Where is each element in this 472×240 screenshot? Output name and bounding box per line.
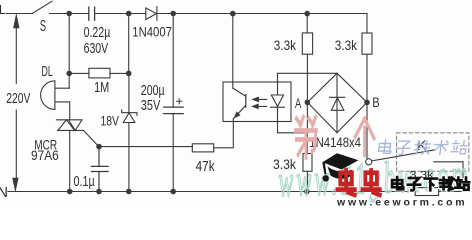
svg-text:L: L [0, 3, 6, 17]
junction node B [364, 100, 370, 106]
terminal arrow L [14, 14, 20, 28]
resistor 1M [89, 68, 110, 78]
svg-text:200µ: 200µ [141, 83, 165, 99]
bridge rectifier 1N4148x4 diamond [307, 73, 367, 133]
wire drop junction1 to lamp wire [68, 14, 70, 74]
watermark red char ge [355, 119, 374, 155]
watermark teal url text [278, 150, 472, 206]
wire top diode to corner B [157, 13, 367, 15]
bridge inner diode [330, 73, 345, 133]
resistor 3.3k R1 [302, 33, 312, 54]
wire 47k to opto emitter [214, 119, 234, 148]
wire zener rail top [128, 14, 130, 74]
opto phototransistor [233, 88, 246, 119]
wire lamp row right [110, 72, 129, 74]
wire N line right [439, 191, 463, 193]
svg-text:18V: 18V [101, 114, 120, 130]
svg-text:N: N [0, 185, 8, 201]
wire triac gate [84, 130, 99, 146]
svg-text:A: A [295, 96, 301, 111]
junction top 3 [170, 11, 176, 17]
svg-text:1N4007: 1N4007 [132, 25, 172, 41]
junction N 4 [170, 189, 176, 195]
svg-text:220V: 220V [6, 91, 30, 107]
switch S [32, 1, 52, 13]
capacitor 0.22u plates [89, 7, 95, 20]
junction top 5 [304, 11, 310, 17]
junction lamp row 2 [126, 71, 132, 77]
wire top after switch [50, 13, 89, 15]
svg-text:47k: 47k [196, 159, 216, 175]
terminal arrow N [13, 178, 19, 191]
capacitor 200u plates [164, 107, 183, 114]
watermark red chongchong [337, 171, 379, 195]
wire lamp to triac MT2 [69, 102, 71, 120]
resistor 3.3k R1 rail [306, 14, 308, 33]
wire gate row to 47k [99, 146, 193, 148]
svg-text:0.22µ: 0.22µ [84, 25, 111, 41]
relay contact terminal circle [366, 159, 372, 165]
wire R2 to node B [366, 54, 368, 102]
relay contact fixed wire [434, 161, 463, 163]
svg-text:3.3k: 3.3k [335, 38, 358, 54]
opto emitter arrow [234, 112, 240, 118]
junction node A [305, 100, 311, 106]
watermark red char di [296, 117, 317, 158]
wire drop to lamp top lead [68, 73, 70, 88]
junction N 5 [304, 189, 310, 195]
wire opto collector rail [232, 14, 234, 89]
capacitor 200u plus sign [177, 99, 182, 104]
wire LED cathode to A rail [278, 132, 308, 134]
svg-text:B: B [372, 95, 379, 110]
wire N line [8, 191, 415, 193]
resistor 3.3k R3 [303, 154, 312, 172]
capacitor 200u rail top [172, 14, 174, 108]
wire node A down [306, 102, 308, 153]
svg-text:DL: DL [42, 64, 53, 80]
junction top 4 [230, 11, 236, 17]
relay K dashed box [397, 133, 469, 171]
svg-text:1N4148x4: 1N4148x4 [309, 135, 361, 151]
lamp DL [41, 81, 70, 110]
wire R3 to N [306, 171, 308, 191]
wire lamp row left [69, 72, 89, 74]
svg-text:www.eeworm.com: www.eeworm.com [336, 197, 467, 209]
junction N 3 [126, 189, 132, 195]
opto LED [271, 73, 285, 132]
junction gate row [96, 144, 102, 150]
junction N 2 [96, 189, 102, 195]
diode 1N4007 [146, 7, 157, 21]
watermark graduation cap [322, 153, 358, 181]
wire top L segment [7, 13, 33, 15]
resistor 3.3k R2 [362, 33, 372, 54]
svg-text:S: S [40, 18, 46, 35]
svg-text:630V: 630V [84, 41, 109, 57]
wire R1 to node A [306, 54, 308, 102]
svg-text:1M: 1M [94, 80, 109, 96]
wire contact down to N [462, 162, 464, 192]
watermark blue text dianzijishuzhan [378, 140, 467, 154]
relay contact lever K [372, 150, 434, 161]
svg-text:3.3k: 3.3k [274, 38, 297, 54]
wire top corner to R2 [366, 14, 368, 34]
capacitor 0.1u [92, 147, 109, 192]
watermark black text dianzixiazaizhan [392, 177, 469, 190]
wire L arrow shaft upper [15, 27, 17, 84]
zener diode 18V [122, 73, 137, 191]
opto light arrow 2 [253, 104, 267, 108]
junction top 1 [66, 11, 72, 17]
wire node B down to contact [366, 102, 368, 158]
triac MCR97A6 [57, 120, 84, 131]
svg-text:3.3k: 3.3k [410, 169, 435, 181]
opto light arrow 1 [253, 97, 267, 101]
wire bridge plus to LED anode [278, 72, 338, 74]
svg-text:35V: 35V [141, 98, 161, 114]
resistor 47k [192, 144, 213, 152]
wire top cap to diode [95, 13, 146, 15]
wire L arrow shaft lower [15, 110, 17, 180]
junction N 1 [67, 189, 73, 195]
junction top 2 [126, 11, 132, 17]
svg-text:0.1µ: 0.1µ [74, 174, 96, 190]
junction lamp row 1 [66, 71, 72, 77]
wire triac MT1 to N [69, 130, 71, 191]
svg-text:97A6: 97A6 [31, 148, 59, 164]
capacitor 200u rail bottom [172, 114, 174, 192]
resistor 3.3k R4 [415, 188, 438, 196]
optocoupler U1 box [223, 82, 291, 122]
